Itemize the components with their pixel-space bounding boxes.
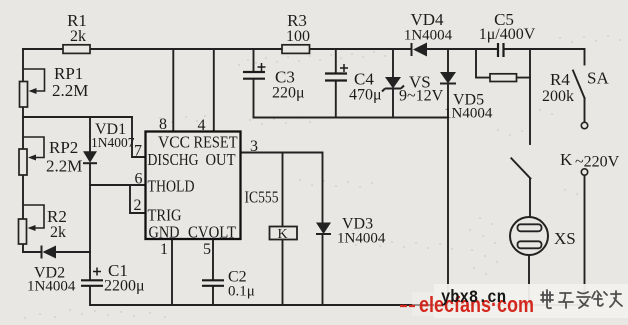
svg-text:RESET: RESET xyxy=(194,133,238,152)
svg-text:XS: XS xyxy=(554,229,576,248)
svg-text:VD4: VD4 xyxy=(410,10,444,29)
svg-text:100: 100 xyxy=(286,28,310,45)
capacitor C4 polarized xyxy=(325,64,382,104)
svg-text:1μ/400V: 1μ/400V xyxy=(479,26,536,43)
capacitor C1 polarized xyxy=(81,261,145,295)
wire bottom ground rail xyxy=(90,304,585,306)
wire socket to ground rail xyxy=(528,255,530,305)
wire pin8 xyxy=(172,49,174,132)
relay coil K xyxy=(270,227,298,243)
svg-text:2200μ: 2200μ xyxy=(104,278,145,295)
svg-text:ybx8.cn: ybx8.cn xyxy=(441,288,506,308)
svg-text:6: 6 xyxy=(135,171,143,188)
diode VD5 xyxy=(440,72,493,122)
svg-text:K: K xyxy=(278,227,288,242)
svg-text:DISCHG: DISCHG xyxy=(148,150,199,169)
svg-text:IC555: IC555 xyxy=(245,188,279,207)
svg-text:SA: SA xyxy=(587,69,609,88)
diode VD4 xyxy=(404,10,453,57)
svg-text:VCC: VCC xyxy=(158,133,190,152)
svg-text:CVOLT: CVOLT xyxy=(188,223,236,242)
svg-text:1N4004: 1N4004 xyxy=(404,28,453,44)
socket XS xyxy=(510,217,576,255)
diode VD1 xyxy=(83,121,135,163)
svg-text:7: 7 xyxy=(134,143,142,160)
svg-text:2: 2 xyxy=(134,197,142,214)
zener diode VS xyxy=(382,73,444,105)
svg-text:1: 1 xyxy=(160,241,168,258)
wire C4 column xyxy=(335,49,337,118)
wire mid bus xyxy=(254,117,449,119)
wire R4 branch xyxy=(476,49,530,78)
wire SA to plug terminal xyxy=(584,98,586,122)
svg-text:3: 3 xyxy=(250,138,258,155)
diode VD2 xyxy=(27,246,76,295)
svg-text:2k: 2k xyxy=(50,224,66,241)
svg-text:220μ: 220μ xyxy=(272,85,305,102)
wire SA column stub xyxy=(584,49,586,65)
wire C1 bottom to ground rail xyxy=(89,286,91,305)
svg-text:9~12V: 9~12V xyxy=(399,88,444,105)
resistor R4 xyxy=(490,70,574,105)
relay contact K blade xyxy=(511,158,530,178)
wire VD5 column xyxy=(447,49,449,305)
svg-text:~220V: ~220V xyxy=(575,154,620,171)
svg-text:1N4004: 1N4004 xyxy=(444,106,493,122)
svg-text:R4: R4 xyxy=(550,70,570,89)
svg-text:1N4004: 1N4004 xyxy=(27,279,76,295)
capacitor C5 xyxy=(479,10,536,57)
switch SA blade xyxy=(573,71,585,99)
wire VD1 column lower down to C1 xyxy=(89,164,91,281)
wire top rail R1 to R3 xyxy=(90,48,282,50)
watermark background patch xyxy=(434,284,628,318)
wire top rail C5 to SA corner xyxy=(504,48,585,50)
svg-text:THOLD: THOLD xyxy=(148,177,195,196)
svg-text:200k: 200k xyxy=(542,88,574,105)
wire pin3 output xyxy=(241,152,323,154)
wire pin7 jog xyxy=(132,117,146,157)
wire relay coil column xyxy=(282,153,284,306)
svg-text:GND: GND xyxy=(149,223,180,242)
resistor R1 xyxy=(63,11,90,53)
svg-text:1N4007: 1N4007 xyxy=(91,135,135,150)
wire C3 column xyxy=(253,49,255,118)
wire mains column lower xyxy=(584,176,586,306)
svg-text:OUT: OUT xyxy=(206,150,236,169)
svg-text:4: 4 xyxy=(198,117,206,134)
wire pin4 xyxy=(213,49,215,132)
wire relay contact to socket xyxy=(529,179,531,218)
capacitor C2 xyxy=(202,269,255,300)
potentiometer RP1 xyxy=(20,64,89,107)
watermark elecfans.com xyxy=(400,292,534,317)
wire VS column xyxy=(392,49,394,118)
rheostat R2 xyxy=(19,205,67,244)
svg-text:2.2M: 2.2M xyxy=(46,157,82,176)
wire VD3 column xyxy=(322,153,324,306)
potentiometer RP2 xyxy=(19,137,82,176)
resistor R3 xyxy=(282,11,310,53)
wire top rail VD4 to C5 xyxy=(427,48,498,50)
wire top rail R3 to VD4 xyxy=(310,48,412,50)
wire pin2 jog xyxy=(130,185,146,213)
wire pin5 to C2 xyxy=(212,239,214,305)
wire pin1 ground xyxy=(171,239,173,305)
svg-text:RP2: RP2 xyxy=(49,138,78,157)
svg-text:5: 5 xyxy=(203,241,211,258)
svg-text:K: K xyxy=(560,150,573,169)
plug terminal upper xyxy=(581,122,587,128)
wire VD2 row xyxy=(23,251,90,253)
capacitor C3 polarized xyxy=(243,63,305,102)
mains label K ~220V xyxy=(560,150,620,171)
wire pin6 xyxy=(90,184,146,186)
svg-text:8: 8 xyxy=(159,116,167,133)
IC555 timer box xyxy=(146,132,279,242)
watermark chinese characters xyxy=(541,290,622,308)
wire left rail xyxy=(22,49,24,252)
wire VD1 column upper xyxy=(89,117,91,151)
plug terminal lower xyxy=(581,169,587,175)
wire node junction RP1-bottom to VD1/pin7 xyxy=(23,116,132,118)
wire XS column upper to relay contact xyxy=(529,78,531,144)
svg-text:2k: 2k xyxy=(70,28,86,45)
svg-text:0.1μ: 0.1μ xyxy=(228,284,255,300)
svg-text:2.2M: 2.2M xyxy=(52,81,88,100)
svg-text:470μ: 470μ xyxy=(349,87,382,104)
diode VD3 xyxy=(316,216,386,247)
wire top rail left segment xyxy=(23,48,63,50)
svg-text:1N4004: 1N4004 xyxy=(337,231,386,247)
